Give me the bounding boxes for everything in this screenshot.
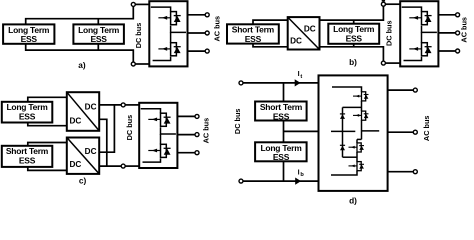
- wire stub long-b top: [353, 20, 355, 23]
- svg-text:DC: DC: [85, 102, 97, 111]
- svg-text:ESS: ESS: [19, 112, 36, 122]
- svg-text:AC bus: AC bus: [422, 116, 431, 142]
- wire bottom rail b: [253, 44, 288, 47]
- battery box: Long Term ESS a2: [73, 24, 124, 44]
- wire ac out 2 a: [188, 32, 206, 34]
- svg-text:a): a): [78, 60, 86, 70]
- arrow Ib: [295, 178, 301, 185]
- node ac terminal 3 c: [195, 151, 199, 155]
- wire ac out 1 b: [438, 14, 455, 16]
- wire dc2 out- to bus: [99, 165, 121, 167]
- wire T3 entry: [356, 139, 358, 143]
- svg-text:DC bus: DC bus: [134, 23, 143, 49]
- svg-text:ESS: ESS: [273, 152, 290, 162]
- wire middle node to converter d: [284, 130, 319, 132]
- transistor Q4d: [349, 162, 365, 171]
- svg-text:b: b: [300, 172, 304, 178]
- wire dc1 out- drop: [99, 119, 107, 166]
- transistor Q1a: [158, 12, 180, 25]
- svg-text:ESS: ESS: [90, 34, 107, 44]
- wire phase out internal: [362, 130, 380, 132]
- wire top rail c1: [28, 97, 67, 102]
- svg-text:t: t: [300, 74, 302, 80]
- svg-text:AC bus: AC bus: [460, 17, 469, 43]
- node DC+ terminal b: [381, 2, 385, 6]
- wire stub short-d top: [283, 83, 285, 102]
- converter DC/DC c1: [67, 92, 99, 131]
- transistor Q1d: [353, 92, 369, 101]
- node ac terminal 1 b: [456, 13, 460, 17]
- artifact tick above dc terminal b: [382, 0, 385, 2]
- svg-text:d): d): [349, 196, 357, 206]
- wire ac out 1 a: [188, 14, 206, 16]
- svg-text:DC bus: DC bus: [233, 109, 242, 135]
- wire internal bottom rail d: [331, 171, 357, 175]
- transistor Q2c: [148, 144, 170, 157]
- wire clamp junction 2: [343, 156, 358, 158]
- wire stub a2 bottom: [97, 44, 99, 50]
- node ac terminal 3 d: [413, 170, 417, 174]
- node ac terminal 2 a: [205, 31, 209, 35]
- wire dc bus+ to inverter c: [125, 104, 139, 106]
- wire bottom rail c1: [28, 123, 67, 126]
- node DC+ terminal d: [239, 81, 243, 85]
- wire stack T1-T2: [361, 101, 363, 111]
- battery box: Long Term ESS a1: [3, 24, 54, 44]
- wire internal top rail: [151, 7, 171, 12]
- wire top rail b: [253, 20, 288, 24]
- wire stack below T2: [361, 120, 363, 139]
- transistor Q1b: [409, 12, 431, 25]
- transistor Q2d: [353, 111, 369, 120]
- wire phase rail: [171, 26, 186, 33]
- wire bottom rail a: [26, 44, 134, 62]
- wire stub long-d bottom: [283, 161, 285, 181]
- svg-text:AC bus: AC bus: [202, 118, 211, 144]
- wire top rail b2: [320, 6, 384, 20]
- transistor Q2a: [158, 43, 180, 56]
- wire dc2 out+ rise: [99, 105, 114, 152]
- svg-text:DC: DC: [290, 36, 302, 45]
- node DC- terminal d: [239, 179, 243, 183]
- battery box: Short Term ESS c: [2, 146, 53, 167]
- wire ac out 3 c: [177, 152, 195, 154]
- svg-text:ESS: ESS: [19, 156, 36, 166]
- wire bottom rail d: [243, 180, 319, 182]
- wire neutral internal: [331, 130, 355, 132]
- wire ac out 3 b: [438, 50, 455, 52]
- svg-text:DC: DC: [69, 160, 81, 169]
- wire top rail c2: [28, 143, 67, 146]
- svg-text:b): b): [349, 57, 357, 67]
- wire ac out 1 c: [177, 115, 195, 117]
- svg-text:c): c): [79, 176, 87, 186]
- battery box: Long Term ESS d: [255, 142, 307, 162]
- battery box: Long Term ESS b: [328, 24, 379, 44]
- wire internal bottom rail: [153, 57, 171, 61]
- svg-text:ESS: ESS: [21, 34, 38, 44]
- wire ac out 3 a: [188, 50, 206, 52]
- transistor Q2b: [409, 43, 431, 56]
- node ac terminal 1 c: [195, 114, 199, 118]
- node DC- terminal a: [131, 62, 135, 66]
- svg-text:I: I: [298, 69, 300, 78]
- converter DC/DC c2: [67, 138, 99, 174]
- diode D1: [340, 114, 345, 119]
- node ac terminal 2 b: [456, 31, 460, 35]
- wire stub a2 top: [97, 19, 99, 25]
- wire stub long-b bottom: [353, 44, 355, 47]
- svg-text:DC: DC: [85, 147, 97, 156]
- wire ac out 2 d: [388, 131, 414, 133]
- node ac terminal 3 a: [205, 49, 209, 53]
- svg-text:DC: DC: [69, 116, 81, 125]
- wire dc+ to inverter a: [135, 3, 149, 5]
- svg-text:DC bus: DC bus: [384, 20, 393, 46]
- wire jog to T3: [357, 138, 362, 140]
- inverter U-b: [400, 1, 438, 66]
- wire top rail d: [243, 82, 319, 84]
- svg-text:ESS: ESS: [346, 34, 363, 44]
- wire bottom rail c2: [28, 167, 67, 171]
- converter U-d (3-level NPC): [319, 75, 388, 190]
- svg-text:ESS: ESS: [273, 111, 290, 121]
- wire ac out 1 d: [388, 89, 414, 91]
- battery box: Short Term ESS d: [255, 102, 307, 122]
- inverter U-a: [149, 1, 187, 66]
- svg-text:DC: DC: [304, 24, 316, 33]
- node ac terminal 2 d: [413, 130, 417, 134]
- battery box: Short Term ESS b: [227, 24, 279, 44]
- node ac terminal 1 a: [205, 13, 209, 17]
- svg-text:DC bus: DC bus: [125, 115, 134, 141]
- wire top rail a: [26, 6, 134, 24]
- wire dc1 out+ to bus: [99, 104, 121, 106]
- transistor Q3d: [349, 143, 365, 152]
- wire ac out 3 d: [388, 171, 414, 173]
- node DC- terminal b: [381, 61, 385, 65]
- wire ac out 2 c: [177, 134, 195, 136]
- transistor Q1c: [148, 113, 170, 126]
- arrow It: [295, 79, 301, 86]
- inverter U-c: [139, 103, 177, 168]
- wire dc+ to inverter b: [385, 3, 400, 5]
- wire dc- to inverter a: [135, 63, 149, 65]
- wire bottom rail b2: [320, 47, 384, 61]
- wire clamp junction 1: [343, 106, 362, 108]
- node DC- terminal c: [121, 164, 125, 168]
- node ac terminal 3 b: [456, 49, 460, 53]
- svg-text:I: I: [298, 167, 300, 176]
- wire dc- to inverter b: [385, 62, 400, 64]
- node DC+ terminal a: [131, 2, 135, 6]
- wire T2 entry: [170, 32, 172, 42]
- node ac terminal 2 c: [195, 133, 199, 137]
- svg-text:AC bus: AC bus: [212, 16, 221, 42]
- wire ac out 2 b: [438, 32, 455, 34]
- converter DC/DC b: [288, 17, 320, 49]
- wire clamp vertical: [342, 107, 344, 157]
- node ac terminal 1 d: [413, 88, 417, 92]
- svg-text:ESS: ESS: [245, 34, 262, 44]
- battery box: Long Term ESS c: [2, 102, 53, 123]
- wire between ESS d: [283, 121, 285, 143]
- node DC+ terminal c: [121, 103, 125, 107]
- wire stack T3-T4: [356, 152, 358, 162]
- wire internal top rail d: [332, 87, 362, 92]
- diode D2: [340, 145, 345, 150]
- wire dc bus- to inverter c: [125, 165, 139, 167]
